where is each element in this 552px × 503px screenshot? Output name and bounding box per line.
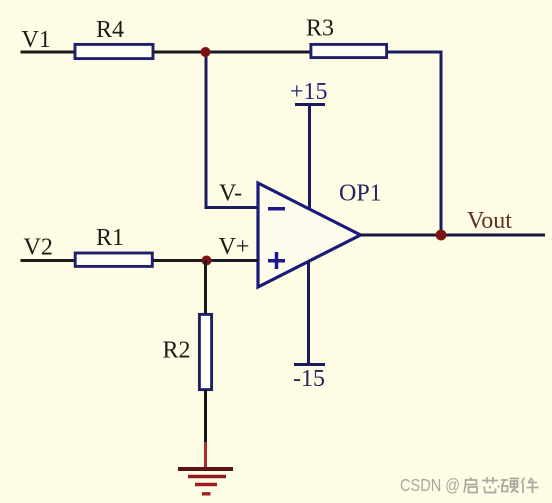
svg-text:-15: -15 bbox=[293, 366, 325, 392]
watermark CSDN bbox=[400, 475, 539, 495]
svg-text:V2: V2 bbox=[24, 235, 53, 261]
wire op-amp output to Vout bbox=[360, 234, 545, 237]
resistor R4 bbox=[75, 44, 153, 58]
op-amp U1 bbox=[258, 183, 361, 287]
svg-text:V-: V- bbox=[219, 181, 242, 207]
wire R3 to node B corner bbox=[387, 52, 441, 235]
glyph xin bbox=[482, 477, 499, 493]
glyph ying bbox=[501, 479, 519, 493]
svg-text:Vout: Vout bbox=[467, 208, 512, 234]
svg-text:V1: V1 bbox=[22, 27, 51, 53]
svg-text:R1: R1 bbox=[96, 225, 124, 251]
node A bbox=[201, 47, 211, 57]
wire R2 to ground (red part) bbox=[204, 442, 207, 467]
wire node A to V- input bbox=[206, 52, 258, 208]
resistor R3 bbox=[311, 44, 387, 57]
wire R2 to ground (black part) bbox=[204, 390, 207, 442]
wire node C to R2 bbox=[204, 261, 207, 315]
wire R1 to node C bbox=[153, 259, 206, 262]
wire V1 lead bbox=[21, 51, 76, 54]
glyph jian bbox=[522, 478, 539, 494]
svg-text:R2: R2 bbox=[163, 338, 191, 364]
ground bbox=[178, 469, 233, 494]
svg-text:R3: R3 bbox=[306, 16, 334, 42]
node C bbox=[202, 256, 212, 266]
op-amp plus input symbol bbox=[268, 252, 285, 269]
svg-text:CSDN @: CSDN @ bbox=[400, 475, 460, 495]
svg-text:V+: V+ bbox=[219, 234, 250, 260]
resistor R1 bbox=[75, 253, 152, 266]
glyph qi bbox=[464, 478, 477, 493]
wire V2 lead bbox=[21, 259, 76, 262]
wire node A to R3 bbox=[206, 51, 310, 54]
resistor R2 bbox=[199, 314, 211, 389]
wire R4 to node A bbox=[153, 51, 206, 54]
op-amp minus input symbol bbox=[268, 207, 285, 211]
power -15 bbox=[293, 261, 325, 392]
svg-text:R4: R4 bbox=[96, 17, 124, 43]
node D output junction bbox=[436, 230, 447, 241]
svg-text:+15: +15 bbox=[290, 79, 328, 105]
wire node C to V+ input bbox=[206, 259, 258, 262]
svg-text:OP1: OP1 bbox=[339, 181, 382, 207]
power +15 bbox=[290, 79, 328, 209]
